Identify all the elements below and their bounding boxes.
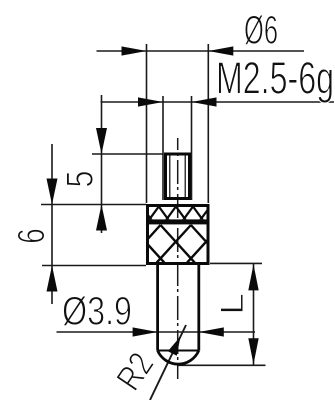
svg-text:L: L xyxy=(214,293,250,315)
svg-text:Ø6: Ø6 xyxy=(244,9,278,53)
svg-text:Ø3.9: Ø3.9 xyxy=(62,290,132,334)
svg-text:M2.5-6g: M2.5-6g xyxy=(216,53,334,104)
svg-text:6: 6 xyxy=(11,228,53,244)
svg-text:5: 5 xyxy=(60,171,102,188)
